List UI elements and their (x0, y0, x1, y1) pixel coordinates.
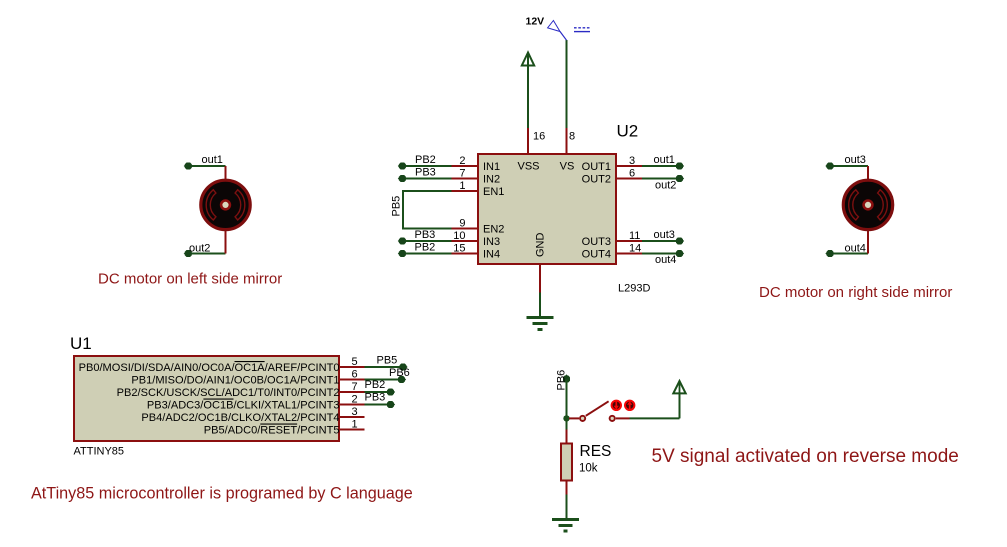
svg-text:DC motor on left side mirror: DC motor on left side mirror (98, 271, 282, 288)
svg-text:10: 10 (453, 230, 465, 242)
svg-text:12V: 12V (526, 16, 545, 28)
svg-text:6: 6 (629, 168, 635, 180)
svg-text:PB4/ADC2/OC1B/CLKO/XTAL2/PCINT: PB4/ADC2/OC1B/CLKO/XTAL2/PCINT4 (141, 412, 339, 424)
svg-text:DC motor on right side mirror: DC motor on right side mirror (759, 284, 952, 301)
svg-text:1: 1 (352, 419, 358, 431)
svg-text:GND: GND (535, 233, 547, 258)
svg-text:ATTINY85: ATTINY85 (74, 446, 125, 458)
svg-text:PB3: PB3 (365, 392, 386, 404)
svg-text:VSS: VSS (517, 161, 539, 173)
svg-text:OUT2: OUT2 (582, 174, 611, 186)
svg-text:U2: U2 (617, 122, 639, 141)
svg-text:IN1: IN1 (483, 161, 500, 173)
svg-text:VS: VS (560, 161, 575, 173)
svg-text:out1: out1 (202, 154, 223, 166)
svg-text:PB3: PB3 (415, 229, 436, 241)
svg-text:L293D: L293D (618, 283, 650, 295)
svg-text:3: 3 (352, 406, 358, 418)
svg-text:out1: out1 (654, 154, 675, 166)
svg-text:OUT4: OUT4 (582, 249, 611, 261)
svg-text:PB2: PB2 (415, 154, 436, 166)
svg-text:7: 7 (352, 381, 358, 393)
svg-text:16: 16 (533, 131, 545, 143)
svg-text:11: 11 (629, 230, 640, 242)
svg-text:PB5: PB5 (377, 355, 398, 367)
svg-text:RES: RES (580, 443, 612, 460)
svg-text:out3: out3 (654, 229, 675, 241)
svg-text:PB3: PB3 (415, 167, 436, 179)
svg-text:EN2: EN2 (483, 224, 504, 236)
svg-text:PB0/MOSI/DI/SDA/AIN0/OC0A/OC1A: PB0/MOSI/DI/SDA/AIN0/OC0A/OC1A/AREF/PCIN… (79, 362, 340, 374)
svg-text:3: 3 (629, 155, 635, 167)
svg-text:PB5/ADC0/RESET/PCINT5: PB5/ADC0/RESET/PCINT5 (204, 425, 340, 437)
svg-text:9: 9 (459, 218, 465, 230)
svg-text:10k: 10k (579, 463, 598, 475)
svg-text:PB2: PB2 (415, 242, 436, 254)
svg-text:PB5: PB5 (391, 196, 403, 217)
svg-text:AtTiny85 microcontroller is pr: AtTiny85 microcontroller is programed by… (31, 485, 413, 503)
svg-text:IN4: IN4 (483, 249, 500, 261)
svg-text:out2: out2 (189, 243, 210, 255)
svg-text:PB3/ADC3/OC1B/CLKI/XTAL1/PCINT: PB3/ADC3/OC1B/CLKI/XTAL1/PCINT3 (147, 400, 340, 412)
svg-text:6: 6 (352, 369, 358, 381)
svg-text:2: 2 (459, 155, 465, 167)
svg-text:out2: out2 (655, 180, 676, 192)
svg-text:OUT1: OUT1 (582, 161, 611, 173)
svg-text:14: 14 (629, 243, 641, 255)
svg-text:1: 1 (459, 180, 465, 192)
svg-text:8: 8 (569, 131, 575, 143)
svg-text:out4: out4 (655, 254, 676, 266)
svg-text:7: 7 (459, 168, 465, 180)
svg-text:out4: out4 (845, 243, 866, 255)
svg-text:2: 2 (352, 394, 358, 406)
svg-text:5V signal activated on reverse: 5V signal activated on reverse mode (652, 446, 959, 467)
svg-text:PB1/MISO/DO/AIN1/OC0B/OC1A/PCI: PB1/MISO/DO/AIN1/OC0B/OC1A/PCINT1 (131, 375, 339, 387)
svg-text:PB6: PB6 (556, 370, 568, 391)
svg-text:PB6: PB6 (389, 367, 410, 379)
svg-text:OUT3: OUT3 (582, 236, 611, 248)
svg-text:EN1: EN1 (483, 186, 504, 198)
svg-text:out3: out3 (845, 154, 866, 166)
svg-text:PB2/SCK/USCK/SCL/ADC1/T0/INT0/: PB2/SCK/USCK/SCL/ADC1/T0/INT0/PCINT2 (117, 387, 340, 399)
svg-text:5: 5 (352, 356, 358, 368)
svg-text:IN3: IN3 (483, 236, 500, 248)
svg-text:15: 15 (453, 243, 465, 255)
svg-text:U1: U1 (70, 334, 92, 353)
svg-text:IN2: IN2 (483, 174, 500, 186)
svg-text:PB2: PB2 (365, 379, 386, 391)
